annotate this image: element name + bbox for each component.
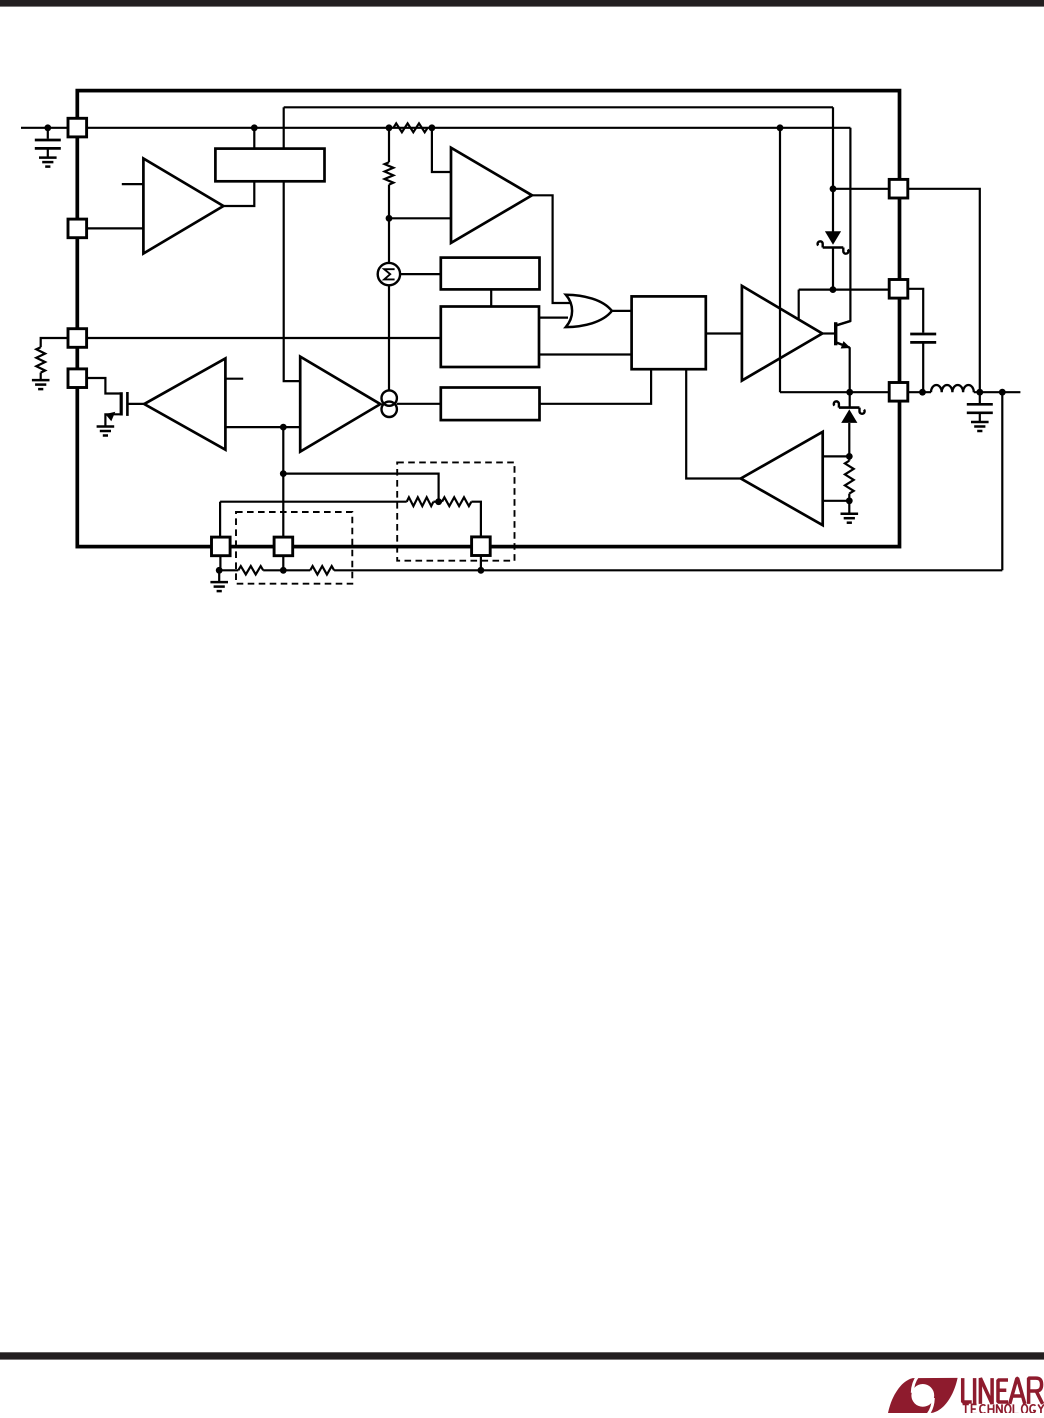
wire output cap stub	[979, 392, 981, 403]
ground (R3)	[841, 512, 859, 515]
node soft-start tap	[280, 470, 287, 477]
BST comparator (points left)	[741, 432, 823, 525]
node comparator lower node	[846, 497, 853, 504]
wire capacitor to SW rail	[922, 343, 924, 392]
wire gate to amp2	[128, 403, 144, 405]
node D1 cathode node	[830, 286, 837, 293]
wire boost node row y=289.6	[799, 289, 890, 291]
wire pad2 riser x=283.3	[282, 427, 284, 537]
OR gate	[566, 295, 612, 327]
wire circles to box3	[397, 403, 441, 405]
wire osc box top stub	[253, 128, 255, 149]
wire pad C to foldback box	[87, 337, 441, 339]
wire driver apex to base	[822, 332, 834, 334]
node comparator upper node	[846, 453, 853, 460]
wire D2 cathode up	[849, 392, 851, 407]
current sense circles	[382, 390, 397, 405]
resistor R1 (on VIN rail)	[393, 123, 427, 132]
op-amp PWM comparator	[451, 148, 532, 243]
wire diode D1 anode drop x=833	[832, 107, 834, 232]
node D1 anode / BST node	[830, 185, 837, 192]
node divider mid node	[435, 498, 442, 505]
resistor R3 (BST comparator)	[845, 461, 854, 494]
wire R2 top branch	[388, 128, 390, 162]
oscillator box	[215, 149, 324, 182]
node feedback tap node	[999, 389, 1006, 396]
wire latch out to box3	[540, 369, 652, 404]
op-amp gm amp (points left)	[144, 358, 225, 449]
node pad3 feedback node	[478, 567, 485, 574]
wire pad D to MOSFET drain	[87, 378, 120, 394]
dashed box A (external divider upper)	[397, 462, 514, 560]
wire pad1 riser	[219, 502, 221, 537]
wire R3 joins	[848, 456, 850, 460]
node boost cap node	[919, 389, 926, 396]
capacitor output	[967, 404, 993, 413]
wire pad F to capacitor	[908, 289, 923, 333]
wire latch to driver	[706, 332, 742, 334]
wire PWM comp output to OR	[532, 195, 572, 303]
wire pad1 below border	[219, 556, 221, 571]
node pad1 ground node	[216, 567, 223, 574]
wire pad C external to RT resistor	[41, 338, 68, 347]
wire pad3 below border	[480, 555, 482, 570]
pad E (BST)	[889, 179, 908, 198]
node R2 bottom node	[386, 215, 393, 222]
wire comp ref chain top	[220, 501, 407, 503]
IC outline box	[77, 91, 899, 547]
resistor RT (pad C external)	[36, 347, 45, 372]
node FB divider node	[280, 567, 287, 574]
ground (RT resistor)	[32, 379, 50, 382]
wire feedback from VOUT	[1001, 392, 1003, 570]
foldback box	[441, 307, 539, 368]
wire latch out to BST comparator	[686, 369, 741, 478]
pad B	[68, 219, 87, 238]
wire pad G to inductor	[908, 391, 931, 393]
bottom footer bar	[0, 1352, 1044, 1359]
node emitter / D2 node	[846, 389, 853, 396]
wire slope line x=283.7 lower to buffer input	[284, 181, 301, 381]
wire output cap to ground	[979, 413, 981, 421]
wire error amp output to osc box	[223, 181, 254, 206]
wire boost drop into driver	[798, 290, 800, 319]
node boost branch tap	[777, 124, 784, 131]
pad C (RT)	[68, 329, 87, 348]
node input cap tap on VIN rail	[44, 124, 51, 131]
wire amp2 to buffer	[225, 426, 300, 428]
wire inductor to open end	[974, 391, 1021, 393]
resistor chain RA2	[442, 497, 471, 506]
driver amp (big, right)	[742, 286, 822, 381]
wire sigma to current circles	[388, 285, 390, 391]
inductor L1	[931, 385, 974, 392]
wire emitter rail y=392.2	[780, 391, 889, 393]
pad G (SW)	[889, 383, 908, 402]
wire collector drop x=850.4	[836, 128, 851, 326]
Linear Technology logo	[888, 1377, 1044, 1415]
wire MOSFET source to ground	[105, 414, 120, 426]
wire sigma feed upper	[388, 218, 390, 263]
diode D1 schottky (points down)	[818, 231, 849, 253]
wire D2 anode down	[848, 423, 850, 456]
transistor Q1 NPN	[836, 321, 851, 349]
wire pad1 ground stub	[218, 570, 220, 581]
ground (input cap)	[39, 156, 57, 159]
wire input cap stub	[47, 128, 49, 139]
pad D	[68, 369, 87, 388]
box3 (driver logic)	[441, 388, 540, 421]
wire BST comparator stub lower	[823, 500, 850, 502]
op-amp error amp (top left)	[143, 159, 223, 254]
resistor RB2 (feedback)	[310, 566, 334, 574]
capacitor input (left of pad A)	[35, 140, 61, 148]
RS latch box	[632, 296, 706, 369]
wire BST vertical x=780	[779, 128, 781, 392]
wire foldback out to latch	[539, 353, 632, 355]
wire pad2 below border	[282, 556, 284, 571]
wire emitter drop	[849, 347, 851, 392]
sigma summing node	[378, 263, 400, 285]
wire soft-start link y=473.6	[283, 474, 438, 502]
wire slope line x=283.7 upper	[283, 107, 285, 148]
wire OR output	[612, 310, 632, 312]
capacitor boost (right side)	[910, 334, 936, 342]
wire VIN rail (top, y=127.8)	[21, 127, 850, 129]
wire second top rail y=107.3	[284, 106, 833, 108]
node R1 right / comp input tap	[429, 124, 436, 131]
diode D2 schottky (points up)	[834, 401, 865, 422]
wire feedback bottom segments	[219, 569, 238, 571]
wire freq box to foldback box	[490, 289, 492, 306]
wire PWM comp input upper	[432, 128, 451, 172]
top header bar	[0, 0, 1044, 7]
resistor RB1 (feedback)	[238, 566, 263, 574]
wire D1 cathode to boost node	[832, 248, 834, 289]
pad P3	[472, 537, 491, 556]
resistor chain RA1	[407, 497, 434, 506]
wire pad B to error amp	[87, 227, 144, 229]
resistor R2 (vertical, slope)	[385, 162, 394, 184]
pad P1 (GND)	[212, 537, 231, 556]
wire D1 anode / pad E / output node	[833, 189, 980, 392]
pad F	[889, 280, 908, 299]
node R1 left / R2 tap	[386, 124, 393, 131]
wire R3 ground stub	[848, 501, 850, 514]
ground (output cap)	[971, 421, 989, 424]
wire RT resistor to ground	[40, 373, 42, 380]
node osc box tap on VIN rail	[251, 124, 258, 131]
wire foldback out to OR	[539, 317, 568, 319]
dashed box B (external divider lower)	[236, 512, 352, 584]
wire BST comparator stub upper	[823, 455, 850, 457]
node gm amp output node	[280, 424, 287, 431]
ground (MOSFET source)	[97, 425, 115, 428]
wire error amp inverting stub	[122, 183, 144, 185]
transistor M1 MOSFET	[105, 392, 127, 421]
node output node	[976, 389, 983, 396]
pad P2 (FB)	[274, 537, 293, 556]
buffer/inverter (to current circles)	[300, 357, 380, 452]
wire sigma output	[400, 273, 441, 275]
wire PWM comp input lower	[389, 217, 451, 219]
pad A (VIN)	[68, 118, 87, 137]
ground (pad1 feedback)	[210, 581, 228, 584]
frequency box (sigma out)	[441, 258, 540, 290]
wire R2 bottom to node	[388, 185, 390, 219]
wire amp2 stub	[225, 378, 243, 380]
